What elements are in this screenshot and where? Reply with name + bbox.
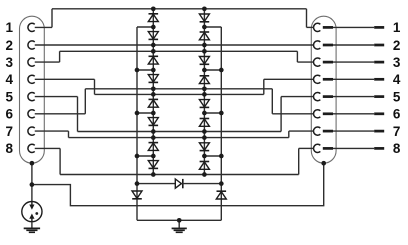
right male pin bar 8 bbox=[323, 147, 333, 150]
ground (left earth symbol) bbox=[24, 228, 40, 232]
wire left column node 2 to bus bbox=[137, 69, 153, 71]
suppressor diode D8 (right col lower) bbox=[199, 76, 209, 84]
wire net pin 8 rail bbox=[60, 174, 299, 176]
wire right pin 6 riser bbox=[271, 89, 273, 114]
suppressor diode D6 (left col lower) bbox=[148, 75, 158, 83]
junction node 32 bbox=[219, 181, 224, 186]
right socket contact pin 6 bbox=[313, 110, 320, 118]
wire right column node 3 to bus bbox=[204, 112, 221, 114]
junction node 10 bbox=[202, 92, 207, 97]
right male pin bar 7 bbox=[323, 130, 333, 133]
junction node 14 bbox=[202, 135, 207, 140]
right terminal stub 1 bbox=[374, 26, 384, 29]
wire net pin 5 rail bbox=[78, 131, 282, 133]
junction node 25 bbox=[135, 68, 140, 73]
junction node 15 bbox=[151, 172, 156, 177]
wire left pin 4 riser bbox=[94, 79, 96, 94]
right terminal stub 7 bbox=[374, 130, 384, 133]
wire right column node 1 to bus bbox=[204, 26, 221, 28]
junction node 12 bbox=[202, 129, 207, 134]
suppressor diode D3 (right col upper) bbox=[199, 14, 209, 22]
junction node 27 bbox=[135, 111, 140, 116]
wire net pin 1 rail bbox=[52, 8, 307, 10]
gas discharge tube F1 (surge arrester) bbox=[22, 202, 42, 222]
suppressor diode D10 (left col lower) bbox=[148, 118, 158, 126]
wire net pin2 (straight rail) bbox=[35, 44, 314, 46]
junction node 13 bbox=[151, 135, 156, 140]
left D-SUB connector shell J1 bbox=[20, 16, 45, 163]
left socket contact pin 3 bbox=[28, 58, 35, 66]
diode D18 (left bus, cathode down) bbox=[132, 191, 142, 199]
left socket contact pin 7 bbox=[28, 127, 35, 135]
junction node 18 bbox=[202, 25, 207, 30]
wire ground stub center bbox=[178, 220, 180, 228]
wire left pin 6 riser bbox=[84, 89, 86, 114]
left socket contact pin 2 bbox=[28, 41, 35, 49]
wire right pin 4 riser bbox=[263, 79, 265, 94]
wire right column node 4 to bus bbox=[204, 155, 221, 157]
wire right pin 8 to terminal bbox=[333, 147, 374, 149]
svg-text:6: 6 bbox=[5, 107, 13, 122]
right socket contact pin 4 bbox=[313, 75, 320, 83]
wire net pin 3 rail bbox=[60, 50, 298, 52]
wire shell bond branch bbox=[32, 163, 324, 206]
wire right pin 8 stub bbox=[299, 147, 314, 149]
wire right pin 3 stub bbox=[297, 61, 313, 63]
right terminal stub 8 bbox=[374, 147, 384, 150]
junction node 21 bbox=[151, 111, 156, 116]
svg-text:7: 7 bbox=[393, 124, 401, 139]
junction node 23 bbox=[151, 154, 156, 159]
junction node 5 bbox=[151, 49, 156, 54]
wire left pin 5 stub bbox=[35, 96, 78, 98]
right socket contact pin 8 bbox=[313, 144, 320, 152]
svg-text:2: 2 bbox=[5, 38, 13, 53]
ground (center earth symbol) bbox=[172, 228, 187, 232]
svg-text:7: 7 bbox=[5, 124, 13, 139]
junction node 31 bbox=[135, 181, 140, 186]
wire net pin 6 rail bbox=[85, 88, 272, 90]
junction node 2 bbox=[202, 6, 207, 11]
svg-text:3: 3 bbox=[393, 55, 401, 70]
suppressor diode D11 (right col upper) bbox=[199, 100, 209, 108]
junction node 36 bbox=[177, 218, 182, 223]
wire left pin 3 riser bbox=[59, 51, 61, 62]
junction node 19 bbox=[151, 68, 156, 73]
wire right pin 5 riser bbox=[280, 97, 282, 132]
suppressor diode D16 (right col lower) bbox=[199, 162, 209, 170]
junction node 6 bbox=[202, 49, 207, 54]
wire right pin 5 to terminal bbox=[333, 96, 374, 98]
suppressor diode D12 (right col lower) bbox=[199, 119, 209, 127]
wire net pin 4 rail bbox=[95, 93, 264, 95]
left socket contact pin 6 bbox=[28, 110, 35, 118]
junction node 9 bbox=[151, 92, 156, 97]
svg-text:5: 5 bbox=[393, 89, 401, 104]
right terminal stub 2 bbox=[374, 44, 384, 47]
suppressor diode D4 (right col lower) bbox=[199, 32, 209, 40]
wire right pin 6 to terminal bbox=[333, 113, 374, 115]
wire left pin 7 stub bbox=[35, 130, 69, 132]
junction node 3 bbox=[151, 43, 156, 48]
diode D19 (right bus, cathode up) bbox=[216, 191, 226, 199]
wire right pin 4 stub bbox=[264, 78, 314, 80]
left socket contact pin 4 bbox=[28, 75, 35, 83]
wire left shell to GDT bbox=[31, 163, 33, 201]
wire right pin 1 riser bbox=[306, 9, 308, 28]
svg-text:4: 4 bbox=[393, 72, 401, 87]
right terminal stub 5 bbox=[374, 95, 384, 98]
left socket contact pin 5 bbox=[28, 92, 35, 100]
suppressor diode D2 (left col lower) bbox=[148, 32, 158, 40]
right terminal stub 6 bbox=[374, 112, 384, 115]
junction node 16 bbox=[202, 172, 207, 177]
suppressor diode D13 (left col upper) bbox=[148, 143, 158, 151]
right terminal stub 4 bbox=[374, 78, 384, 81]
wire right pin 7 riser bbox=[288, 131, 290, 138]
wire right pin 6 stub bbox=[272, 113, 313, 115]
wire left column node 4 to bus bbox=[137, 155, 153, 157]
svg-text:2: 2 bbox=[393, 38, 401, 53]
right socket contact pin 1 bbox=[314, 23, 321, 31]
suppressor diode D5 (left col upper) bbox=[148, 56, 158, 64]
wire right column node 2 to bus bbox=[204, 69, 221, 71]
right socket contact pin 3 bbox=[314, 58, 321, 66]
right middle-node bus bbox=[220, 27, 222, 220]
wire right pin 3 to terminal bbox=[333, 61, 374, 63]
junction node 8 bbox=[202, 86, 207, 91]
left suppressor diode column line bbox=[152, 9, 154, 175]
suppressor diode D9 (left col upper) bbox=[148, 99, 158, 107]
junction node 34 bbox=[321, 161, 326, 166]
junction node 33 bbox=[30, 161, 35, 166]
wire left column node 3 to bus bbox=[137, 112, 153, 114]
junction node 17 bbox=[151, 25, 156, 30]
svg-text:1: 1 bbox=[5, 20, 13, 35]
wire left pin 8 riser bbox=[59, 148, 61, 174]
wire bottom bus link bbox=[137, 219, 221, 221]
svg-text:8: 8 bbox=[5, 141, 13, 156]
junction node 22 bbox=[202, 111, 207, 116]
wire net pin 7 rail bbox=[69, 137, 289, 139]
junction node 1 bbox=[151, 6, 156, 11]
junction node 29 bbox=[135, 154, 140, 159]
suppressor diode D15 (right col upper) bbox=[199, 143, 209, 151]
right socket contact pin 7 bbox=[313, 127, 320, 135]
junction node 26 bbox=[219, 68, 224, 73]
left socket contact pin 1 bbox=[28, 23, 35, 31]
svg-text:1: 1 bbox=[393, 20, 401, 35]
wire right pin 4 to terminal bbox=[333, 78, 374, 80]
junction node 28 bbox=[219, 111, 224, 116]
wire right pin 5 stub bbox=[281, 96, 313, 98]
wire left pin 4 stub bbox=[35, 78, 95, 80]
wire right pin 1 to terminal bbox=[333, 26, 374, 28]
suppressor diode D7 (right col upper) bbox=[199, 57, 209, 65]
wire bus link right part bbox=[181, 183, 221, 185]
wire left column node 1 to bus bbox=[137, 26, 153, 28]
junction node 30 bbox=[219, 154, 224, 159]
right male pin bar 4 bbox=[323, 78, 333, 81]
suppressor diode D14 (left col lower) bbox=[148, 161, 158, 169]
diode D17 (bus link, pointing right) bbox=[175, 179, 183, 188]
wire right pin 7 to terminal bbox=[333, 130, 374, 132]
left middle-node bus bbox=[136, 27, 138, 220]
wire left pin 3 stub bbox=[35, 61, 60, 63]
wire right pin 2 to terminal bbox=[333, 44, 374, 46]
right male pin bar 6 bbox=[323, 112, 333, 115]
wire right pin 8 riser bbox=[298, 148, 300, 174]
wire right pin 3 riser bbox=[296, 51, 298, 62]
right male pin bar 1 bbox=[323, 26, 333, 29]
right male pin bar 3 bbox=[323, 61, 333, 64]
suppressor diode D1 (left col upper) bbox=[148, 14, 158, 22]
wire GDT to ground bbox=[31, 222, 33, 228]
wire left pin 1 riser bbox=[51, 9, 53, 28]
svg-text:3: 3 bbox=[5, 55, 13, 70]
right D-SUB connector shell J2 bbox=[311, 16, 336, 163]
wire left pin 1 stub bbox=[35, 26, 52, 28]
junction node 24 bbox=[202, 154, 207, 159]
wire left pin 7 riser bbox=[68, 131, 70, 138]
left socket contact pin 8 bbox=[28, 144, 35, 152]
wire left pin 6 stub bbox=[35, 113, 86, 115]
junction node 11 bbox=[151, 129, 156, 134]
wire bus link left part bbox=[137, 183, 175, 185]
right terminal stub 3 bbox=[374, 61, 384, 64]
junction node 7 bbox=[151, 86, 156, 91]
wire right pin 1 stub bbox=[307, 26, 314, 28]
junction node 35 bbox=[30, 182, 35, 187]
svg-text:6: 6 bbox=[393, 107, 401, 122]
right suppressor diode column line bbox=[203, 9, 205, 175]
svg-text:4: 4 bbox=[5, 72, 13, 87]
junction node 20 bbox=[202, 68, 207, 73]
wire left pin 5 riser bbox=[77, 97, 79, 132]
right socket contact pin 2 bbox=[313, 41, 320, 49]
right male pin bar 5 bbox=[323, 95, 333, 98]
wire right pin 7 stub bbox=[289, 130, 314, 132]
junction node 4 bbox=[202, 43, 207, 48]
svg-text:8: 8 bbox=[393, 141, 401, 156]
right male pin bar 2 bbox=[323, 44, 333, 47]
wire left pin 8 stub bbox=[35, 147, 60, 149]
svg-text:5: 5 bbox=[5, 89, 13, 104]
right socket contact pin 5 bbox=[313, 93, 320, 101]
